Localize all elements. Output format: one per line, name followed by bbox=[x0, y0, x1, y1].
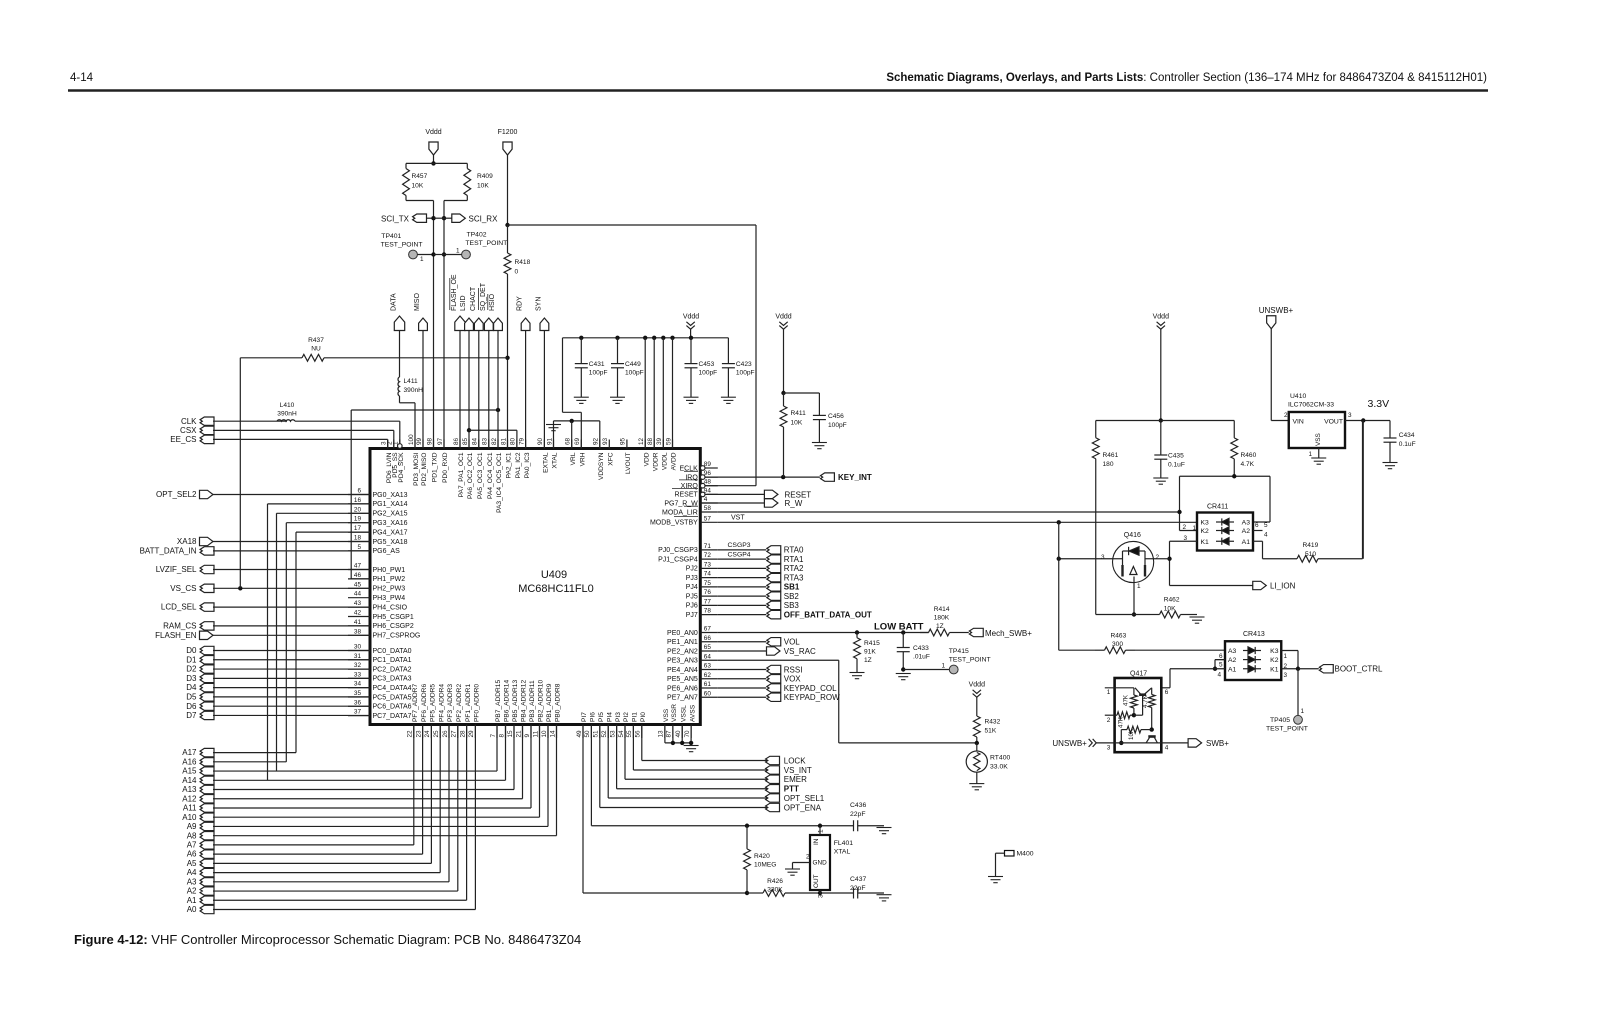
svg-text:TEST_POINT: TEST_POINT bbox=[1266, 726, 1308, 733]
svg-text:Vddd: Vddd bbox=[969, 682, 985, 689]
svg-text:CSX: CSX bbox=[180, 426, 197, 435]
svg-text:PA4_OC4_OC1: PA4_OC4_OC1 bbox=[487, 452, 494, 499]
svg-text:22pF: 22pF bbox=[850, 885, 866, 892]
svg-text:HSIO: HSIO bbox=[489, 293, 496, 311]
svg-text:PD3_MOSI: PD3_MOSI bbox=[413, 452, 420, 486]
svg-text:PB0_ADDR8: PB0_ADDR8 bbox=[555, 683, 562, 722]
svg-text:C436: C436 bbox=[850, 802, 866, 809]
svg-text:6: 6 bbox=[1219, 653, 1223, 660]
svg-text:59: 59 bbox=[665, 437, 672, 445]
svg-text:OFF_BATT_DATA_OUT: OFF_BATT_DATA_OUT bbox=[784, 610, 872, 619]
svg-text:77: 77 bbox=[704, 598, 712, 605]
svg-text:R437: R437 bbox=[308, 337, 324, 344]
svg-text:1: 1 bbox=[456, 248, 460, 255]
svg-text:PG5_XA18: PG5_XA18 bbox=[373, 539, 408, 546]
svg-text:18: 18 bbox=[354, 535, 362, 542]
svg-text:47K: 47K bbox=[1123, 694, 1130, 706]
svg-text:CR411: CR411 bbox=[1207, 504, 1228, 511]
svg-text:TP415: TP415 bbox=[949, 648, 969, 655]
svg-text:RDY: RDY bbox=[517, 296, 524, 311]
svg-text:RAM_CS: RAM_CS bbox=[163, 622, 196, 631]
svg-text:57: 57 bbox=[704, 515, 712, 522]
svg-text:69: 69 bbox=[574, 437, 581, 445]
svg-text:47K: 47K bbox=[1118, 716, 1125, 728]
svg-text:VSSR: VSSR bbox=[671, 704, 678, 722]
svg-text:K3: K3 bbox=[1270, 648, 1279, 655]
svg-text:CLK: CLK bbox=[181, 417, 197, 426]
svg-text:1Z: 1Z bbox=[936, 623, 944, 630]
svg-text:29: 29 bbox=[468, 730, 475, 738]
svg-text:3: 3 bbox=[1284, 672, 1288, 679]
svg-text:PTT: PTT bbox=[784, 785, 799, 794]
svg-text:65: 65 bbox=[704, 644, 712, 651]
svg-text:54: 54 bbox=[618, 730, 625, 738]
svg-text:PD1_TXD: PD1_TXD bbox=[432, 452, 439, 482]
svg-text:PI5: PI5 bbox=[598, 712, 605, 722]
svg-text:1: 1 bbox=[1301, 708, 1305, 715]
svg-text:7: 7 bbox=[490, 734, 497, 738]
svg-text:PB2_ADDR10: PB2_ADDR10 bbox=[538, 680, 545, 722]
svg-text:0: 0 bbox=[515, 269, 519, 276]
svg-text:PH4_CSIO: PH4_CSIO bbox=[373, 604, 408, 611]
svg-text:1: 1 bbox=[1284, 653, 1288, 660]
svg-text:51K: 51K bbox=[985, 728, 997, 735]
svg-text:R_W: R_W bbox=[785, 499, 803, 508]
svg-text:15: 15 bbox=[507, 730, 514, 738]
svg-text:PD0_RXD: PD0_RXD bbox=[442, 452, 449, 483]
svg-text:D4: D4 bbox=[186, 683, 197, 692]
svg-text:4.7K: 4.7K bbox=[1241, 461, 1255, 468]
svg-text:94: 94 bbox=[704, 487, 712, 494]
svg-text:PJ0_CSGP3: PJ0_CSGP3 bbox=[658, 547, 698, 554]
svg-text:PA2_IC1: PA2_IC1 bbox=[506, 452, 513, 478]
svg-text:6: 6 bbox=[357, 488, 361, 495]
svg-text:180: 180 bbox=[1103, 461, 1114, 468]
svg-text:UNSWB+: UNSWB+ bbox=[1259, 306, 1294, 315]
svg-text:5: 5 bbox=[357, 544, 361, 551]
svg-text:OPT_ENA: OPT_ENA bbox=[784, 803, 822, 812]
svg-text:PB5_ADDR13: PB5_ADDR13 bbox=[512, 680, 519, 722]
svg-text:390nH: 390nH bbox=[404, 387, 424, 394]
svg-text:2: 2 bbox=[1284, 412, 1288, 419]
svg-text:5: 5 bbox=[1264, 522, 1268, 529]
svg-text:2: 2 bbox=[1182, 524, 1186, 531]
svg-text:A13: A13 bbox=[182, 785, 197, 794]
svg-text:44: 44 bbox=[354, 591, 362, 598]
svg-text:A6: A6 bbox=[187, 850, 197, 859]
svg-text:10MEG: 10MEG bbox=[754, 862, 776, 869]
svg-text:49: 49 bbox=[576, 730, 583, 738]
svg-text:PI0: PI0 bbox=[640, 712, 647, 722]
svg-text:36: 36 bbox=[354, 699, 362, 706]
svg-text:72: 72 bbox=[704, 552, 712, 559]
svg-text:9: 9 bbox=[524, 734, 531, 738]
svg-text:EXTAL: EXTAL bbox=[543, 452, 550, 473]
svg-text:TP405: TP405 bbox=[1270, 717, 1290, 724]
svg-text:62: 62 bbox=[704, 672, 712, 679]
svg-text:R461: R461 bbox=[1103, 452, 1119, 459]
svg-text:A1: A1 bbox=[1228, 666, 1237, 673]
svg-text:PH5_CSGP1: PH5_CSGP1 bbox=[373, 614, 414, 621]
svg-text:OPT_SEL1: OPT_SEL1 bbox=[784, 794, 825, 803]
svg-text:C434: C434 bbox=[1399, 432, 1415, 439]
svg-text:R457: R457 bbox=[412, 173, 428, 180]
svg-text:UNSWB+: UNSWB+ bbox=[1052, 739, 1087, 748]
svg-text:ILC7062CM-33: ILC7062CM-33 bbox=[1288, 402, 1334, 409]
svg-text:VIN: VIN bbox=[1293, 419, 1304, 426]
svg-text:Q416: Q416 bbox=[1124, 532, 1141, 539]
svg-text:D2: D2 bbox=[186, 665, 197, 674]
svg-text:28: 28 bbox=[459, 730, 466, 738]
svg-text:LVOUT: LVOUT bbox=[625, 453, 632, 475]
svg-text:TP401: TP401 bbox=[381, 233, 401, 240]
svg-text:100pF: 100pF bbox=[699, 370, 718, 377]
svg-text:VDD: VDD bbox=[643, 452, 650, 466]
svg-text:390nH: 390nH bbox=[277, 411, 297, 418]
svg-text:32: 32 bbox=[354, 662, 362, 669]
svg-text:74: 74 bbox=[704, 571, 712, 578]
svg-text:R409: R409 bbox=[477, 173, 493, 180]
svg-text:LVZIF_SEL: LVZIF_SEL bbox=[156, 565, 197, 574]
svg-text:PC4_DATA4: PC4_DATA4 bbox=[373, 685, 412, 692]
svg-text:R419: R419 bbox=[1303, 542, 1319, 549]
svg-text:CHACT: CHACT bbox=[470, 286, 477, 311]
svg-text:L411: L411 bbox=[404, 378, 419, 385]
svg-text:97: 97 bbox=[437, 437, 444, 445]
svg-text:55: 55 bbox=[626, 730, 633, 738]
svg-text:A10: A10 bbox=[182, 813, 197, 822]
svg-text:95: 95 bbox=[620, 437, 627, 445]
svg-text:99: 99 bbox=[416, 437, 423, 445]
svg-text:EE_CS: EE_CS bbox=[170, 435, 196, 444]
svg-text:PJ5: PJ5 bbox=[686, 593, 698, 600]
svg-text:4: 4 bbox=[1217, 672, 1221, 679]
svg-text:SB2: SB2 bbox=[784, 592, 800, 601]
svg-text:XTAL: XTAL bbox=[552, 452, 559, 468]
svg-text:PG4_XA17: PG4_XA17 bbox=[373, 529, 408, 536]
svg-text:C449: C449 bbox=[625, 361, 641, 368]
svg-text:PG1_XA14: PG1_XA14 bbox=[373, 501, 408, 508]
svg-text:PJ2: PJ2 bbox=[686, 566, 698, 573]
svg-text:PA7_PA1_OC1: PA7_PA1_OC1 bbox=[458, 452, 465, 497]
svg-text:C453: C453 bbox=[699, 361, 715, 368]
svg-text:68: 68 bbox=[565, 437, 572, 445]
svg-text:43: 43 bbox=[354, 600, 362, 607]
svg-text:TEST_POINT: TEST_POINT bbox=[465, 240, 507, 247]
svg-text:1: 1 bbox=[942, 663, 946, 670]
svg-text:PD4_SCK: PD4_SCK bbox=[398, 452, 405, 483]
svg-text:35: 35 bbox=[354, 690, 362, 697]
svg-text:12: 12 bbox=[638, 437, 645, 445]
svg-text:100pF: 100pF bbox=[736, 370, 755, 377]
svg-text:510: 510 bbox=[1305, 551, 1316, 558]
svg-text:83: 83 bbox=[482, 437, 489, 445]
svg-text:Vddd: Vddd bbox=[1153, 314, 1169, 321]
svg-text:A16: A16 bbox=[182, 757, 197, 766]
svg-text:XTAL: XTAL bbox=[834, 849, 851, 856]
svg-text:88: 88 bbox=[647, 437, 654, 445]
svg-text:A15: A15 bbox=[182, 767, 197, 776]
svg-text:C423: C423 bbox=[736, 361, 752, 368]
svg-text:VDDR: VDDR bbox=[652, 452, 659, 471]
svg-text:XA18: XA18 bbox=[177, 537, 197, 546]
svg-text:3: 3 bbox=[1101, 554, 1105, 561]
svg-text:73: 73 bbox=[704, 561, 712, 568]
svg-text:Figure 4-12: VHF Controller Mi: Figure 4-12: VHF Controller Mircoprocess… bbox=[74, 932, 581, 947]
svg-text:R463: R463 bbox=[1111, 633, 1127, 640]
svg-text:A2: A2 bbox=[1242, 528, 1251, 535]
svg-text:10K: 10K bbox=[477, 183, 489, 190]
svg-text:1: 1 bbox=[1308, 451, 1312, 458]
svg-text:VS_INT: VS_INT bbox=[784, 766, 812, 775]
svg-text:330K: 330K bbox=[767, 886, 783, 893]
svg-text:PG0_XA13: PG0_XA13 bbox=[373, 492, 408, 499]
svg-text:PF5_ADDR5: PF5_ADDR5 bbox=[430, 684, 437, 722]
svg-text:R462: R462 bbox=[1164, 597, 1180, 604]
svg-text:A0: A0 bbox=[187, 905, 197, 914]
svg-text:VDDL: VDDL bbox=[662, 452, 669, 470]
svg-text:3: 3 bbox=[1107, 745, 1111, 752]
svg-text:VS_CS: VS_CS bbox=[170, 584, 196, 593]
svg-text:80: 80 bbox=[510, 437, 517, 445]
svg-text:10: 10 bbox=[541, 730, 548, 738]
svg-text:R420: R420 bbox=[754, 853, 770, 860]
svg-text:R414: R414 bbox=[934, 606, 950, 613]
svg-text:K1: K1 bbox=[1270, 666, 1279, 673]
svg-text:PE1_AN1: PE1_AN1 bbox=[667, 639, 698, 646]
svg-text:PJ4: PJ4 bbox=[686, 584, 698, 591]
svg-text:XFC: XFC bbox=[608, 452, 615, 465]
svg-text:PF6_ADDR6: PF6_ADDR6 bbox=[421, 684, 428, 722]
svg-text:.01uF: .01uF bbox=[913, 654, 930, 661]
svg-text:RTA1: RTA1 bbox=[784, 555, 804, 564]
svg-text:R460: R460 bbox=[1241, 452, 1257, 459]
svg-text:1: 1 bbox=[1107, 689, 1111, 696]
svg-text:PA0_IC3: PA0_IC3 bbox=[524, 452, 531, 478]
svg-text:76: 76 bbox=[704, 589, 712, 596]
svg-text:U410: U410 bbox=[1290, 393, 1306, 400]
svg-text:98: 98 bbox=[426, 437, 433, 445]
svg-text:PB1_ADDR9: PB1_ADDR9 bbox=[546, 683, 553, 722]
svg-text:21: 21 bbox=[515, 730, 522, 738]
svg-text:PC0_DATA0: PC0_DATA0 bbox=[373, 648, 412, 655]
svg-text:VST: VST bbox=[731, 515, 745, 522]
svg-text:PE3_AN3: PE3_AN3 bbox=[667, 658, 698, 665]
svg-text:PH6_CSGP2: PH6_CSGP2 bbox=[373, 623, 414, 630]
svg-text:NU: NU bbox=[311, 346, 321, 353]
svg-text:14: 14 bbox=[549, 730, 556, 738]
svg-text:RSSI: RSSI bbox=[784, 665, 803, 674]
svg-text:3.3V: 3.3V bbox=[1368, 398, 1390, 410]
svg-text:25: 25 bbox=[433, 730, 440, 738]
svg-text:PC1_DATA1: PC1_DATA1 bbox=[373, 657, 412, 664]
svg-text:PB7_ADDR15: PB7_ADDR15 bbox=[495, 680, 502, 722]
svg-text:PF0_ADDR0: PF0_ADDR0 bbox=[474, 684, 481, 722]
svg-text:Mech_SWB+: Mech_SWB+ bbox=[985, 629, 1032, 638]
svg-text:VSS: VSS bbox=[1315, 433, 1322, 446]
svg-text:VRL: VRL bbox=[570, 452, 577, 465]
svg-text:PB3_ADDR11: PB3_ADDR11 bbox=[529, 680, 536, 722]
svg-text:4.7K: 4.7K bbox=[1142, 694, 1149, 708]
svg-text:PC3_DATA3: PC3_DATA3 bbox=[373, 676, 412, 683]
svg-text:87: 87 bbox=[666, 730, 673, 738]
svg-text:2: 2 bbox=[806, 854, 810, 861]
svg-text:RT400: RT400 bbox=[990, 755, 1010, 762]
svg-text:81: 81 bbox=[500, 437, 507, 445]
svg-text:RTA2: RTA2 bbox=[784, 564, 804, 573]
svg-text:33.0K: 33.0K bbox=[990, 764, 1008, 771]
svg-text:79: 79 bbox=[518, 437, 525, 445]
svg-text:0.1uF: 0.1uF bbox=[1399, 441, 1416, 448]
svg-text:PH3_PW4: PH3_PW4 bbox=[373, 595, 406, 602]
svg-text:58: 58 bbox=[704, 505, 712, 512]
svg-text:40: 40 bbox=[675, 730, 682, 738]
svg-text:4-14: 4-14 bbox=[70, 72, 94, 84]
svg-text:PJ7: PJ7 bbox=[686, 612, 698, 619]
svg-text:PF7_ADDR7: PF7_ADDR7 bbox=[412, 684, 419, 722]
svg-text:PE7_AN7: PE7_AN7 bbox=[667, 695, 698, 702]
svg-text:Vddd: Vddd bbox=[683, 314, 699, 321]
svg-text:R415: R415 bbox=[864, 640, 880, 647]
svg-text:U409: U409 bbox=[541, 569, 567, 581]
svg-text:16: 16 bbox=[354, 497, 362, 504]
svg-text:86: 86 bbox=[453, 437, 460, 445]
svg-text:3: 3 bbox=[818, 894, 825, 898]
svg-text:22pF: 22pF bbox=[850, 811, 866, 818]
svg-text:A1: A1 bbox=[187, 896, 197, 905]
svg-text:66: 66 bbox=[704, 635, 712, 642]
svg-text:24: 24 bbox=[424, 730, 431, 738]
svg-text:SQ_DET: SQ_DET bbox=[480, 282, 487, 311]
svg-text:PG2_XA15: PG2_XA15 bbox=[373, 511, 408, 518]
svg-text:SCI_RX: SCI_RX bbox=[469, 215, 499, 224]
svg-text:PE2_AN2: PE2_AN2 bbox=[667, 648, 698, 655]
svg-text:SYN: SYN bbox=[535, 297, 542, 311]
svg-text:LSID: LSID bbox=[460, 295, 467, 311]
svg-text:0.1uF: 0.1uF bbox=[1168, 462, 1185, 469]
svg-text:PB6_ADDR14: PB6_ADDR14 bbox=[504, 680, 511, 722]
svg-text:Vddd: Vddd bbox=[775, 314, 791, 321]
svg-text:8: 8 bbox=[498, 734, 505, 738]
svg-text:82: 82 bbox=[491, 437, 498, 445]
svg-text:PF2_ADDR2: PF2_ADDR2 bbox=[456, 684, 463, 722]
svg-text:2: 2 bbox=[1156, 554, 1160, 561]
svg-text:PI4: PI4 bbox=[606, 712, 613, 722]
svg-text:D0: D0 bbox=[186, 646, 197, 655]
svg-text:VOL: VOL bbox=[784, 638, 801, 647]
svg-text:A3: A3 bbox=[1242, 520, 1251, 527]
svg-text:FLASH_OE: FLASH_OE bbox=[451, 274, 458, 311]
svg-text:85: 85 bbox=[462, 437, 469, 445]
svg-text:PE6_AN6: PE6_AN6 bbox=[667, 685, 698, 692]
svg-text:R411: R411 bbox=[791, 410, 807, 417]
svg-text:91: 91 bbox=[546, 437, 553, 445]
svg-text:D5: D5 bbox=[186, 693, 197, 702]
svg-text:A8: A8 bbox=[187, 831, 197, 840]
svg-text:PC7_DATA7: PC7_DATA7 bbox=[373, 713, 412, 720]
svg-text:10K: 10K bbox=[412, 183, 424, 190]
svg-text:R426: R426 bbox=[767, 878, 783, 885]
svg-text:PG3_XA16: PG3_XA16 bbox=[373, 520, 408, 527]
svg-text:100: 100 bbox=[408, 434, 415, 445]
svg-text:90: 90 bbox=[537, 437, 544, 445]
svg-text:10K: 10K bbox=[791, 420, 803, 427]
svg-text:3: 3 bbox=[1348, 412, 1352, 419]
svg-text:EMER: EMER bbox=[784, 775, 807, 784]
svg-text:50: 50 bbox=[584, 730, 591, 738]
svg-text:PG6_AS: PG6_AS bbox=[373, 548, 401, 555]
svg-text:91K: 91K bbox=[864, 649, 876, 656]
svg-text:RESET: RESET bbox=[674, 492, 698, 499]
svg-text:64: 64 bbox=[704, 653, 712, 660]
svg-text:LOCK: LOCK bbox=[784, 756, 806, 765]
svg-text:Vddd: Vddd bbox=[425, 129, 441, 136]
svg-text:D3: D3 bbox=[186, 674, 197, 683]
svg-text:R418: R418 bbox=[515, 259, 531, 266]
svg-text:PC6_DATA6: PC6_DATA6 bbox=[373, 704, 412, 711]
svg-text:F1200: F1200 bbox=[498, 129, 518, 136]
svg-text:A4: A4 bbox=[187, 868, 197, 877]
svg-text:PA6_OC2_OC1: PA6_OC2_OC1 bbox=[467, 452, 474, 499]
svg-text:47: 47 bbox=[354, 563, 362, 570]
svg-text:A1: A1 bbox=[1242, 539, 1251, 546]
svg-text:4: 4 bbox=[1264, 532, 1268, 539]
svg-text:10K: 10K bbox=[1128, 728, 1135, 740]
svg-text:PB4_ADDR12: PB4_ADDR12 bbox=[521, 680, 528, 722]
svg-text:RESET: RESET bbox=[785, 491, 812, 500]
svg-text:FL401: FL401 bbox=[834, 840, 853, 847]
svg-text:20: 20 bbox=[354, 506, 362, 513]
svg-text:4: 4 bbox=[704, 496, 708, 503]
svg-text:PH0_PW1: PH0_PW1 bbox=[373, 567, 406, 574]
svg-text:1: 1 bbox=[818, 829, 825, 833]
svg-text:PI3: PI3 bbox=[615, 712, 622, 722]
svg-text:C433: C433 bbox=[913, 645, 929, 652]
svg-text:A14: A14 bbox=[182, 776, 197, 785]
svg-text:DATA: DATA bbox=[391, 293, 398, 311]
svg-text:75: 75 bbox=[704, 580, 712, 587]
svg-text:PC5_DATA5: PC5_DATA5 bbox=[373, 694, 412, 701]
svg-text:100pF: 100pF bbox=[625, 370, 644, 377]
svg-text:PJ6: PJ6 bbox=[686, 603, 698, 610]
svg-text:M400: M400 bbox=[1017, 851, 1034, 858]
svg-text:KEYPAD_COL: KEYPAD_COL bbox=[784, 684, 837, 693]
svg-text:180K: 180K bbox=[934, 615, 950, 622]
svg-text:GND: GND bbox=[813, 860, 828, 867]
svg-text:L410: L410 bbox=[280, 402, 295, 409]
svg-text:CSGP3: CSGP3 bbox=[728, 542, 751, 549]
svg-text:100pF: 100pF bbox=[828, 422, 847, 429]
svg-text:TEST_POINT: TEST_POINT bbox=[949, 657, 991, 664]
svg-text:1Z: 1Z bbox=[864, 657, 872, 664]
svg-text:23: 23 bbox=[415, 730, 422, 738]
svg-text:5: 5 bbox=[1219, 662, 1223, 669]
svg-text:PI2: PI2 bbox=[623, 712, 630, 722]
svg-text:VS_RAC: VS_RAC bbox=[784, 647, 816, 656]
svg-text:A7: A7 bbox=[187, 841, 197, 850]
svg-text:CSGP4: CSGP4 bbox=[728, 551, 751, 558]
svg-text:52: 52 bbox=[601, 730, 608, 738]
svg-text:PA3_IC4_OC5_OC1: PA3_IC4_OC5_OC1 bbox=[496, 452, 503, 513]
svg-text:A3: A3 bbox=[1228, 648, 1237, 655]
svg-text:1: 1 bbox=[1137, 583, 1141, 590]
svg-text:PJ1_CSGP4: PJ1_CSGP4 bbox=[658, 556, 698, 563]
svg-text:PE4_AN4: PE4_AN4 bbox=[667, 667, 698, 674]
svg-text:MC68HC11FL0: MC68HC11FL0 bbox=[518, 583, 594, 595]
svg-text:56: 56 bbox=[635, 730, 642, 738]
svg-text:10K: 10K bbox=[1164, 606, 1176, 613]
svg-text:VOX: VOX bbox=[784, 675, 802, 684]
